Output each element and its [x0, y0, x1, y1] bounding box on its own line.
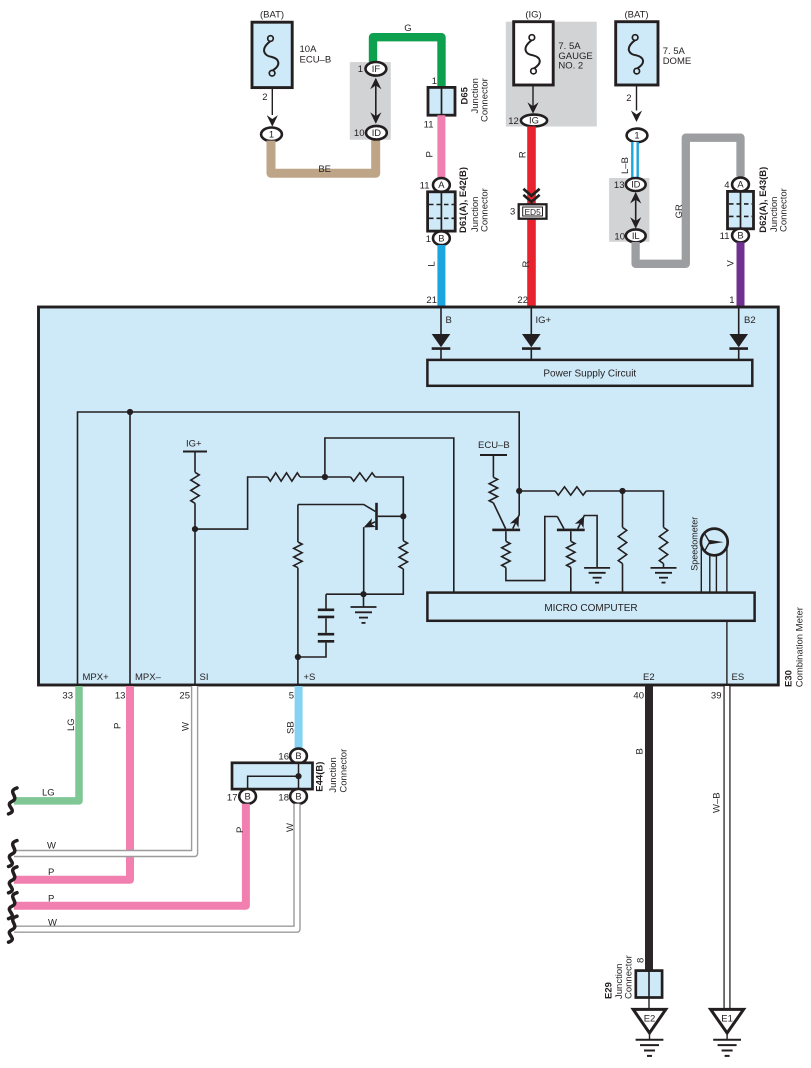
ground G2	[651, 568, 677, 583]
resistor on Q3 base	[567, 541, 575, 567]
svg-text:12: 12	[508, 116, 519, 127]
wire ECU-B rail	[519, 491, 663, 527]
svg-text:NO. 2: NO. 2	[558, 61, 583, 72]
connector break squiggle P2	[9, 893, 18, 919]
resistor R5 to ground	[659, 527, 667, 568]
svg-text:BE: BE	[318, 164, 331, 175]
svg-text:Power Supply Circuit: Power Supply Circuit	[543, 368, 636, 379]
wire G (green) from IF to D65	[373, 23, 442, 87]
svg-text:W–B: W–B	[712, 792, 723, 813]
pin 40 E2 label	[643, 672, 655, 683]
wire V (violet) D62 to pin 1	[726, 242, 741, 307]
svg-text:ID: ID	[631, 179, 641, 190]
junction block IF/ID (gray panel)	[350, 62, 391, 140]
pin 39 ES label	[732, 672, 745, 683]
connector ED5 terminal 3	[510, 204, 546, 218]
svg-text:SB: SB	[286, 721, 297, 734]
resistor on +S branch	[294, 542, 302, 568]
svg-text:P: P	[48, 894, 54, 905]
svg-text:Connector: Connector	[624, 955, 635, 999]
wire E29 to ground E2	[648, 998, 650, 1010]
junction dot IG+/SI	[192, 526, 198, 532]
svg-text:5: 5	[289, 690, 294, 701]
svg-text:IG+: IG+	[536, 315, 552, 326]
transistor Q1 (PNP)	[298, 503, 403, 594]
svg-text:E2: E2	[644, 1014, 656, 1025]
svg-text:W: W	[181, 722, 192, 731]
wire W (white) pin 25 to connector	[14, 686, 195, 854]
svg-text:Connector: Connector	[480, 78, 491, 122]
terminal 1 IF	[358, 62, 387, 76]
svg-text:LG: LG	[66, 718, 77, 731]
wire Q3 base	[570, 531, 572, 592]
pin 22 IG+ label	[536, 315, 552, 326]
connector terminal 1 (ECU-B fuse)	[261, 128, 282, 142]
svg-text:P: P	[235, 827, 246, 833]
svg-text:4: 4	[724, 180, 729, 191]
wire GR (gray) IL to D62	[636, 138, 741, 264]
fuse (BAT) 7.5A DOME	[616, 10, 692, 123]
svg-text:1: 1	[634, 130, 639, 141]
resistor R-row-1	[268, 473, 300, 481]
svg-text:E29: E29	[604, 982, 615, 999]
svg-text:L–B: L–B	[620, 157, 631, 174]
wire speedometer to micro computer	[701, 546, 716, 593]
wire R (red) IG to pin 22	[517, 126, 532, 307]
svg-text:1: 1	[358, 64, 363, 75]
wire collector branch	[326, 516, 403, 594]
svg-text:Combination Meter: Combination Meter	[795, 607, 806, 687]
svg-text:P: P	[113, 723, 124, 729]
ECU-B supply symbol	[478, 440, 510, 477]
pin 13 MPX- label	[135, 672, 162, 683]
capacitor C1	[318, 610, 334, 617]
svg-text:Junction: Junction	[328, 757, 339, 792]
wire ES from speedometer to pin 39	[726, 546, 728, 685]
wire L (blue) D61 to pin 21	[426, 245, 441, 308]
junction connector D65	[424, 76, 491, 131]
svg-text:E30: E30	[784, 670, 795, 687]
svg-text:Speedometer: Speedometer	[690, 517, 700, 571]
resistor on Q2 base	[502, 541, 510, 567]
diode at pin 1	[729, 308, 748, 360]
svg-text:R: R	[521, 261, 532, 268]
svg-text:13: 13	[614, 180, 625, 191]
svg-text:DOME: DOME	[663, 56, 692, 67]
svg-text:11: 11	[720, 231, 730, 242]
svg-text:G: G	[404, 23, 411, 34]
ground G1	[584, 568, 610, 583]
terminal 12 IG	[508, 115, 547, 127]
transistor Q2 (NPN)	[492, 491, 520, 531]
pin 5 +S label	[304, 672, 316, 683]
svg-text:IL: IL	[632, 230, 640, 241]
svg-text:(BAT): (BAT)	[260, 10, 284, 21]
junction dot row	[322, 474, 328, 480]
diode at pin 22	[522, 308, 541, 360]
svg-text:MICRO COMPUTER: MICRO COMPUTER	[544, 603, 637, 614]
svg-text:11: 11	[424, 120, 434, 131]
svg-text:13: 13	[115, 690, 126, 701]
svg-text:MPX–: MPX–	[135, 672, 162, 683]
svg-text:SI: SI	[200, 672, 209, 683]
wire L-B (blue/black) to ID	[620, 142, 635, 178]
bidirectional arrow ID-IL	[630, 192, 641, 229]
junction connector D62(A) E43(B)	[720, 167, 790, 243]
svg-text:B: B	[438, 232, 444, 243]
wire W-B (white/black) pin 39 to ground E1	[712, 686, 728, 1009]
svg-text:B: B	[295, 791, 301, 802]
svg-text:8: 8	[636, 958, 647, 963]
svg-text:IF: IF	[372, 63, 381, 74]
svg-text:+S: +S	[304, 672, 316, 683]
fuse (BAT) 10A ECU-B	[252, 10, 331, 127]
svg-text:1: 1	[426, 234, 431, 245]
pin 33 MPX+ label	[83, 672, 110, 683]
wire branch to micro computer	[325, 438, 454, 593]
wire row to collector line	[375, 477, 403, 516]
svg-text:GR: GR	[674, 204, 685, 218]
micro computer box	[427, 593, 754, 621]
svg-text:A: A	[737, 179, 744, 190]
svg-text:(IG): (IG)	[525, 10, 541, 21]
splice chevron into ED5	[523, 189, 539, 202]
wire P (pink) D65 to D61	[425, 115, 442, 178]
svg-text:V: V	[726, 260, 737, 267]
pin 21 B label	[446, 315, 452, 326]
terminal 13 ID	[614, 178, 646, 191]
svg-text:1: 1	[432, 76, 437, 87]
pin 25 SI label	[200, 672, 209, 683]
svg-text:W: W	[48, 918, 57, 929]
wire Q2 base network	[506, 517, 557, 581]
connector break squiggle W1	[9, 841, 18, 867]
connector terminal 1 (DOME fuse)	[627, 129, 648, 143]
svg-text:18: 18	[278, 793, 289, 804]
junction dot rail/MPX-	[127, 409, 133, 415]
wire P (pink) pin 13 to connector	[14, 686, 130, 880]
connector break squiggle P1	[9, 867, 18, 893]
svg-text:B: B	[446, 315, 452, 326]
svg-text:ES: ES	[732, 672, 745, 683]
wire +S branch	[297, 505, 299, 685]
svg-text:B: B	[635, 748, 646, 754]
junction block ID/IL (gray panel)	[609, 178, 649, 242]
wire BE (beige) from terminal 1 to ID	[271, 140, 376, 175]
svg-text:A: A	[438, 179, 445, 190]
svg-text:D62(A), E43(B): D62(A), E43(B)	[758, 167, 769, 233]
wire capacitor branch	[298, 594, 326, 657]
svg-text:R: R	[518, 151, 529, 158]
diode at pin 21	[432, 308, 451, 360]
wire internal rail to MPX+/MPX-	[78, 412, 520, 685]
svg-text:Connector: Connector	[779, 188, 790, 232]
svg-text:Connector: Connector	[480, 188, 491, 232]
combination meter E30 box	[39, 307, 779, 685]
speedometer gauge	[690, 517, 728, 571]
wire P (pink) E44 pin 17 to connector	[14, 804, 246, 906]
resistor R4 to micro computer	[618, 491, 626, 593]
wire LG (light green) pin 33 to connector	[14, 686, 79, 801]
resistor on ECU-B branch	[489, 477, 497, 503]
svg-text:21: 21	[426, 295, 437, 306]
pin number 25	[179, 690, 190, 701]
svg-text:16: 16	[278, 752, 289, 763]
svg-text:10: 10	[614, 232, 625, 243]
connector break squiggle W2	[9, 916, 18, 942]
svg-text:2: 2	[262, 92, 267, 103]
terminal 10 IL	[614, 229, 645, 242]
resistor on collector branch	[399, 541, 407, 569]
pin number 33	[62, 690, 73, 701]
pin 1 B2 label	[744, 315, 756, 326]
junction dot +S/capacitor	[295, 654, 301, 660]
pin number 13	[115, 690, 126, 701]
svg-text:W: W	[285, 823, 296, 832]
bidirectional arrow IF-ID	[370, 78, 381, 124]
capacitor C2	[318, 634, 334, 641]
svg-text:L: L	[427, 261, 438, 266]
svg-text:IG+: IG+	[186, 439, 202, 450]
svg-text:ECU–B: ECU–B	[300, 54, 332, 65]
svg-text:LG: LG	[42, 788, 55, 799]
svg-text:IG: IG	[529, 115, 539, 126]
junction dot collector	[400, 513, 406, 519]
svg-text:Connector: Connector	[339, 749, 350, 793]
fuse (IG) 7.5A GAUGE NO.2 (gray panel)	[506, 10, 597, 127]
svg-text:40: 40	[633, 690, 644, 701]
svg-text:10: 10	[354, 128, 365, 139]
wire W (white) E44 pin 18 to connector	[14, 804, 297, 929]
svg-text:2: 2	[626, 93, 631, 104]
svg-text:ED5: ED5	[524, 207, 541, 217]
ground point E1	[711, 1009, 744, 1056]
junction connector D61(A) E42(B)	[420, 167, 491, 245]
svg-text:17: 17	[227, 793, 238, 804]
svg-text:W: W	[47, 841, 56, 852]
wire B (black) pin 40 to E29	[635, 686, 650, 971]
svg-text:P: P	[425, 151, 436, 157]
wire row middle	[300, 476, 351, 478]
svg-text:(BAT): (BAT)	[624, 10, 648, 21]
svg-text:E44(B): E44(B)	[315, 762, 326, 792]
junction dot emitter/ground	[360, 591, 366, 597]
svg-text:ECU–B: ECU–B	[478, 440, 510, 451]
svg-text:3: 3	[510, 206, 515, 217]
transistor Q3 (NPN)	[557, 516, 597, 568]
IG+ supply symbol	[183, 439, 207, 473]
svg-text:22: 22	[517, 295, 528, 306]
wire IG+ branch to SI pin	[195, 477, 268, 685]
svg-text:1: 1	[269, 129, 274, 140]
pin number 40	[633, 690, 644, 701]
junction dot rail/R4	[619, 488, 625, 494]
power supply circuit box	[427, 360, 752, 386]
svg-text:25: 25	[179, 690, 190, 701]
svg-text:E2: E2	[643, 672, 655, 683]
svg-text:B: B	[244, 791, 250, 802]
svg-text:ID: ID	[372, 127, 382, 138]
svg-text:B2: B2	[744, 315, 756, 326]
junction connector E44(B)	[227, 749, 350, 804]
svg-text:B: B	[737, 230, 743, 241]
resistor on rail	[555, 487, 586, 495]
svg-text:39: 39	[711, 690, 722, 701]
svg-text:B: B	[295, 750, 301, 761]
svg-text:D61(A), E42(B): D61(A), E42(B)	[458, 167, 469, 233]
junction connector E29	[604, 955, 663, 999]
junction dot ECU-B rail	[516, 488, 522, 494]
ground G0	[351, 594, 377, 623]
resistor on IG+ branch	[191, 472, 199, 503]
pin number 5	[289, 690, 294, 701]
terminal 10 ID	[354, 126, 387, 140]
svg-text:D65: D65	[460, 86, 471, 104]
svg-text:E1: E1	[721, 1014, 733, 1025]
ground point E2	[633, 1009, 666, 1056]
svg-text:11: 11	[420, 181, 430, 192]
connector break squiggle LG	[9, 788, 18, 814]
svg-text:MPX+: MPX+	[83, 672, 110, 683]
svg-text:33: 33	[62, 690, 73, 701]
wire SB (sky blue) pin 5 to E44	[286, 686, 299, 749]
resistor R-row-2	[351, 473, 376, 481]
pin number 39	[711, 690, 722, 701]
svg-text:1: 1	[729, 295, 734, 306]
svg-text:P: P	[48, 867, 54, 878]
label E30 Combination Meter	[784, 607, 806, 687]
